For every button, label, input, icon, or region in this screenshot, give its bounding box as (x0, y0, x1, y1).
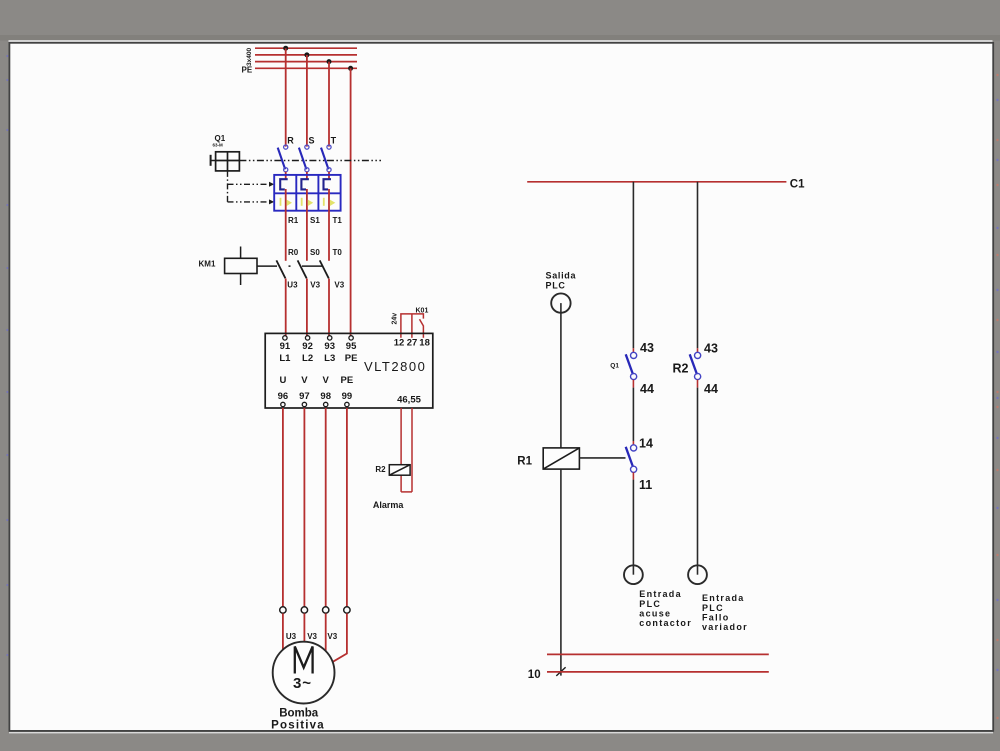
svg-text:Q1: Q1 (610, 363, 619, 370)
svg-text:PE: PE (242, 66, 253, 75)
svg-text:12: 12 (394, 338, 405, 349)
VLT label 96 97 98 99 (278, 391, 353, 402)
trip indicator T1 (yellow) (323, 198, 335, 206)
svg-text:PLC: PLC (639, 599, 661, 609)
wire C1 to R2 contact (697, 182, 699, 348)
wire phase S drop to Q1 (306, 55, 308, 147)
connection slash at 10 bus (556, 667, 565, 676)
KM1 linkage dash-dot (257, 265, 329, 267)
heater element R1 (280, 179, 288, 189)
wire PLC output to R1 coil (560, 313, 562, 448)
R2 aux contact 43-44 (690, 352, 701, 379)
KM1 main contact R (276, 260, 285, 278)
linkage dash-dot vertical below Q1 (227, 171, 229, 202)
R1 aux contact 14-11 (626, 445, 637, 473)
wire T heater lower stub (328, 189, 330, 211)
KM1 main contact T (320, 260, 329, 278)
svg-text:Salida: Salida (546, 271, 577, 281)
overload relay box (274, 175, 340, 211)
wire S KM1 to VLT (306, 279, 308, 336)
svg-text:43: 43 (704, 342, 718, 356)
svg-text:27: 27 (407, 338, 418, 349)
svg-text:24v: 24v (392, 313, 399, 325)
bus line L1 (255, 47, 357, 49)
wire R2 44 to PLC input (697, 388, 699, 566)
svg-text:C1: C1 (790, 178, 805, 190)
svg-text:3x400: 3x400 (246, 48, 253, 66)
svg-text:S0: S0 (310, 248, 320, 257)
svg-text:L3: L3 (324, 353, 335, 364)
VLT label L1 L2 L3 PE (279, 353, 357, 364)
breaker Q1 operator box (216, 152, 240, 171)
breaker Q1 operator handle tick (210, 155, 212, 166)
VLT2800 drive box (265, 333, 433, 408)
svg-text:14: 14 (639, 436, 653, 450)
svg-text:U: U (279, 375, 286, 386)
svg-text:U3: U3 (286, 632, 297, 641)
svg-text:R0: R0 (288, 248, 299, 257)
wire U to motor (282, 408, 284, 607)
svg-text:T1: T1 (333, 216, 343, 225)
contactor KM1 coil (225, 247, 257, 286)
control bus C1 (527, 181, 786, 183)
wire R KM1 to VLT (285, 279, 287, 336)
label Entrada PLC acuse contactor (639, 589, 692, 628)
svg-text:R2: R2 (375, 465, 386, 474)
red stub above 43 (632, 348, 634, 352)
motor M 3~ (273, 642, 335, 704)
junction dot PE (348, 66, 353, 71)
PLC input terminal (acuse) (624, 565, 643, 584)
wire R pole to overload (285, 172, 287, 179)
VLT label 12 27 18 (394, 338, 430, 349)
wire S overload to KM1 (306, 211, 308, 261)
control wire 27 drop (411, 314, 413, 338)
motor terminal U (280, 607, 286, 613)
svg-text:contactor: contactor (639, 618, 692, 628)
svg-text:92: 92 (302, 341, 313, 352)
alarm wire bottom link (401, 491, 412, 493)
alarm wire 55 (411, 408, 413, 492)
svg-text:variador: variador (702, 622, 748, 632)
wire PE drop to VLT2800 (350, 68, 352, 335)
red stub above 14 (632, 441, 634, 445)
svg-text:Bomba: Bomba (279, 708, 319, 720)
wire S heater lower stub (306, 189, 308, 211)
PLC output terminal circle (551, 293, 570, 312)
VLT terminal 99 (345, 402, 349, 406)
label Entrada PLC Fallo variador (702, 593, 748, 632)
wire 11 to PLC input (632, 480, 634, 566)
wire T overload to KM1 (328, 211, 330, 261)
svg-text:V3: V3 (334, 281, 344, 290)
svg-text:V3: V3 (327, 632, 337, 641)
bus 10 line 1 (547, 653, 769, 655)
svg-text:91: 91 (280, 341, 291, 352)
bus line L3 (255, 61, 357, 63)
svg-text:PLC: PLC (546, 281, 566, 291)
wire T KM1 to VLT (328, 279, 330, 336)
breaker pole T (321, 145, 331, 172)
VLT terminal 96 (281, 402, 285, 406)
svg-text:Q1: Q1 (215, 134, 226, 143)
VLT terminal 92 (305, 336, 309, 340)
red stub below 44 R2 (697, 380, 699, 388)
heater element S1 (301, 179, 309, 189)
svg-text:Positiva: Positiva (271, 719, 325, 731)
svg-text:Entrada: Entrada (639, 589, 682, 599)
wire PE to motor (346, 408, 348, 607)
svg-text:93: 93 (324, 341, 335, 352)
svg-text:KM1: KM1 (199, 259, 216, 268)
breaker pole R (278, 145, 288, 172)
svg-text:R1: R1 (288, 216, 299, 225)
red stub below 44 (632, 380, 634, 388)
VLT label 91 92 93 95 (280, 341, 357, 352)
svg-text:97: 97 (299, 391, 310, 402)
svg-text:V: V (323, 375, 330, 386)
junction dot phase S (304, 52, 309, 57)
trip indicator S1 (yellow) (301, 198, 313, 206)
svg-text:Fallo: Fallo (702, 612, 730, 622)
bus line L2 (255, 54, 357, 56)
Q1 aux contact 43-44 (626, 352, 637, 379)
svg-text:PE: PE (341, 375, 354, 386)
svg-text:44: 44 (640, 382, 654, 396)
wire R1 coil to 10 bus (560, 469, 562, 675)
wire R overload to KM1 (285, 211, 287, 261)
svg-text:S1: S1 (310, 216, 320, 225)
wire C1 to Q1 aux contact (632, 182, 634, 348)
junction dot phase R (283, 46, 288, 51)
svg-text:44: 44 (704, 382, 718, 396)
svg-text:43: 43 (640, 341, 654, 355)
svg-text:VLT2800: VLT2800 (364, 359, 426, 374)
PLC input terminal (fallo) (688, 565, 707, 584)
wire 44 to contact 14 (632, 388, 634, 441)
svg-text:L1: L1 (279, 353, 291, 364)
motor lead V (303, 613, 305, 642)
linkage dash-dot line to poles (239, 160, 381, 162)
VLT terminal 93 (328, 336, 332, 340)
wire V to motor (303, 408, 305, 607)
VLT terminal 91 (283, 336, 287, 340)
KM1 main contact S (298, 260, 307, 278)
svg-text:S: S (309, 136, 315, 146)
svg-text:U3: U3 (287, 281, 298, 290)
svg-text:10: 10 (528, 669, 541, 681)
VLT terminal 98 (324, 402, 328, 406)
linkage dash-dot to overload row 2 (228, 199, 275, 204)
VLT terminal 97 (302, 402, 306, 406)
svg-text:11: 11 (639, 478, 652, 492)
svg-text:95: 95 (346, 341, 357, 352)
red stub below 11 (632, 472, 634, 479)
alarm wire 46 (400, 408, 402, 492)
wire R heater lower stub (285, 189, 287, 211)
svg-text:46,55: 46,55 (397, 395, 421, 406)
VLT terminal 95 (349, 336, 353, 340)
bus line PE (255, 67, 357, 69)
svg-text:18: 18 (419, 338, 430, 349)
svg-text:3~: 3~ (293, 675, 312, 692)
svg-text:T: T (331, 136, 337, 146)
motor terminal W (323, 607, 329, 613)
breaker Q1 operator stem (211, 160, 216, 162)
motor lead PE (333, 613, 347, 661)
wire T pole to overload (328, 172, 330, 179)
svg-text:PE: PE (345, 353, 358, 364)
svg-text:Entrada: Entrada (702, 593, 745, 603)
motor terminal PE (344, 607, 350, 613)
motor lead W (325, 613, 327, 651)
wire phase R drop to Q1 (285, 48, 287, 146)
svg-text:63-M: 63-M (213, 143, 224, 148)
svg-text:L2: L2 (302, 353, 313, 364)
svg-text:T0: T0 (333, 248, 343, 257)
label Salida PLC (546, 271, 577, 291)
wire S pole to overload (306, 172, 308, 179)
svg-text:R: R (287, 136, 294, 146)
svg-text:V3: V3 (307, 632, 317, 641)
motor terminal V (301, 607, 307, 613)
relay R1 coil (543, 448, 579, 469)
linkage dash-dot to overload row 1 (228, 182, 275, 187)
control wire staple 12-27 (401, 314, 424, 338)
motor lead U (282, 613, 284, 650)
wire W to motor (325, 408, 327, 607)
wire phase T drop to Q1 (328, 62, 330, 147)
svg-text:V3: V3 (310, 281, 320, 290)
trip indicator R1 (yellow) (280, 198, 292, 206)
svg-text:96: 96 (278, 391, 289, 402)
bus 10 line 2 (547, 671, 769, 673)
svg-text:V: V (301, 375, 308, 386)
svg-text:Alarma: Alarma (373, 500, 405, 510)
breaker pole S (299, 145, 309, 172)
svg-text:99: 99 (342, 391, 353, 402)
svg-text:PLC: PLC (702, 603, 724, 613)
svg-text:acuse: acuse (639, 608, 671, 618)
wire R1 coil to contact 14 (579, 457, 625, 459)
heater element T1 (324, 179, 332, 189)
K01 contact slash (420, 319, 424, 338)
svg-text:R1: R1 (517, 455, 532, 467)
svg-text:R2: R2 (673, 361, 689, 375)
svg-text:98: 98 (320, 391, 331, 402)
VLT label U V W PE (279, 375, 353, 386)
junction dot phase T (327, 59, 332, 64)
red stub above 43 R2 (697, 348, 699, 352)
relay R2 coil (389, 465, 410, 476)
